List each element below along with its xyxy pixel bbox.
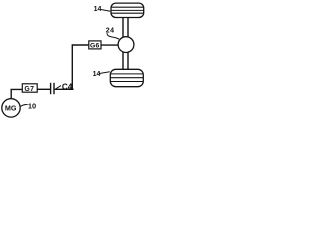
wire: G6 to differential	[101, 44, 118, 46]
svg-text:14: 14	[93, 71, 101, 78]
wire: riser corner to G6	[72, 44, 89, 46]
label 24 with leader	[106, 27, 120, 39]
svg-text:G6: G6	[90, 43, 100, 50]
label 14 (top) with leader	[94, 6, 111, 13]
clutch C4	[51, 83, 54, 94]
gearbox G7	[22, 84, 37, 93]
svg-text:G7: G7	[24, 86, 34, 93]
svg-text:C4: C4	[62, 82, 73, 91]
wire: MG to G7	[11, 89, 22, 98]
wheel 14 (bottom) with tread lines	[108, 69, 146, 86]
svg-text:MG: MG	[5, 103, 17, 112]
motor-generator MG (10)	[2, 99, 20, 117]
wire: G7 to clutch	[38, 88, 51, 90]
axle shaft upper (wheel to differential)	[123, 18, 128, 40]
wheel 14 (top) with tread lines	[109, 3, 146, 17]
svg-text:10: 10	[28, 102, 36, 111]
svg-text:24: 24	[106, 27, 115, 34]
label 10 with leader	[21, 102, 37, 111]
wire: vertical riser	[71, 44, 73, 89]
wire: clutch to riser	[54, 88, 74, 90]
differential 24	[118, 37, 134, 53]
gearbox G6	[89, 41, 101, 50]
label 14 (bottom) with leader	[93, 71, 110, 78]
svg-text:14: 14	[94, 6, 102, 13]
axle shaft lower (differential to wheel)	[123, 51, 128, 70]
label C4 with leader	[56, 82, 73, 91]
